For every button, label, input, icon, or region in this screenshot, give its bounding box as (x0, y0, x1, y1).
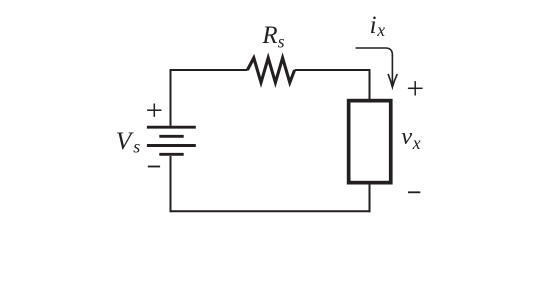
wire: right vertical from load box bottom to bottom rail (369, 183, 371, 212)
wire: top rail right segment from resistor to top-right corner (295, 69, 371, 71)
svg-text:x: x (412, 133, 421, 153)
current arrow ix (curved lead-in with arrowhead) (356, 48, 398, 87)
svg-text:i: i (370, 12, 377, 39)
wire: top rail left segment from corner to resistor (170, 69, 248, 71)
battery plate 1 (long, top) (147, 126, 196, 129)
resistor Rs (zigzag) (247, 58, 294, 83)
wire: top-left vertical from battery + plate up to top rail (170, 69, 172, 126)
wire: bottom rail (171, 210, 371, 212)
svg-text:V: V (116, 126, 135, 155)
battery plate 4 (short, bottom) (159, 153, 183, 156)
plus terminal marking of Vs (147, 104, 161, 117)
minus terminal marking of Vs (148, 166, 160, 168)
svg-text:s: s (278, 32, 285, 52)
voltage source Vs (battery) (147, 127, 196, 154)
battery plate 3 (long) (147, 144, 196, 147)
svg-text:s: s (133, 137, 140, 157)
minus polarity marking of vx (408, 191, 420, 193)
svg-text:x: x (376, 20, 385, 40)
plus polarity marking of vx (408, 81, 423, 95)
wire: right vertical from top rail down to load box top (369, 69, 371, 100)
svg-text:R: R (261, 22, 277, 49)
battery plate 2 (short) (159, 135, 183, 138)
load box (element carrying vx) (349, 101, 391, 183)
svg-text:v: v (401, 123, 412, 150)
wire: bottom-left vertical from bottom rail up to battery - plate (170, 156, 172, 212)
